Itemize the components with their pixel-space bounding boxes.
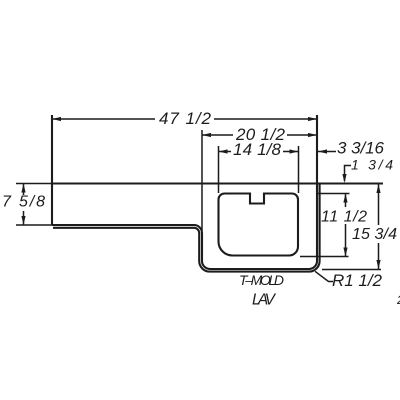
svg-text:14 1/8: 14 1/8 [233, 140, 282, 159]
svg-text:15 3/4: 15 3/4 [352, 226, 397, 243]
svg-text:11 1/2: 11 1/2 [321, 209, 367, 226]
svg-text:2: 2 [396, 293, 400, 307]
svg-text:47 1/2: 47 1/2 [159, 109, 212, 128]
svg-text:R1 1/2: R1 1/2 [332, 271, 383, 290]
svg-text:T–MOLD: T–MOLD [239, 272, 284, 288]
svg-text:1 3/4: 1 3/4 [351, 157, 393, 173]
svg-text:LAV: LAV [252, 292, 277, 309]
svg-text:3 3/16: 3 3/16 [337, 139, 385, 158]
svg-text:7 5/8: 7 5/8 [2, 194, 45, 211]
